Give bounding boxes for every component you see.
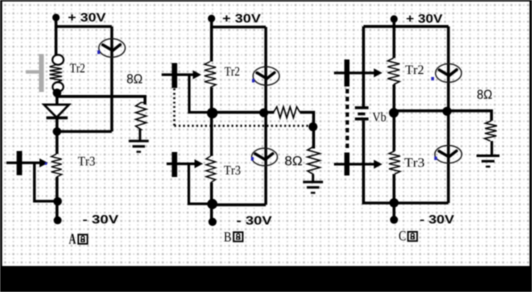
wire output node A to load resistor [56, 96, 145, 104]
label Tr2 (circuit B) [225, 67, 240, 76]
arrowhead into Tr2 (circuit C) [374, 68, 383, 77]
figure icon A [78, 235, 87, 244]
current source lower (circuit C) [435, 146, 462, 164]
wire middle vertical C upper [393, 28, 396, 58]
label + 30V (circuit B) [223, 14, 261, 23]
wire middle vertical C centre [393, 85, 396, 152]
wire middle output rail B [212, 111, 275, 114]
frame border right bar [530, 0, 532, 266]
blue tick artifact left of upper current source C [431, 77, 434, 80]
feedback wire loop (circuit A) [34, 163, 57, 201]
label Tr3 (circuit B) [224, 166, 240, 175]
diode D1 cathode bar [46, 116, 67, 119]
wire diode cathode to current source A [57, 130, 112, 133]
junction dot diode cathode node A [53, 127, 62, 136]
resistor 8 ohm load (circuit C) [485, 121, 497, 141]
wire Tr2 to diode junction A [56, 91, 59, 105]
feedback wire loop lower (circuit B) [189, 164, 212, 204]
wire right branch A vertical [110, 27, 113, 132]
label Tr3 (circuit C) [404, 158, 424, 167]
input terminal bar upper (circuit C) [344, 60, 349, 87]
wire left branch A upper [55, 27, 58, 56]
transistor Tr2 (circuit A) bottom terminal circle [53, 82, 64, 91]
frame border top line [0, 0, 532, 2]
transistor Tr3 (circuit C) squiggle [389, 151, 400, 174]
transistor Tr3 (circuit B) squiggle [206, 156, 215, 183]
wire middle vertical C lower [393, 174, 396, 220]
wire top rail B [212, 19, 266, 28]
junction dot feedback node A [53, 197, 62, 206]
arrowhead into Tr3 (circuit C) [374, 160, 383, 169]
junction dot dotted feedback node (circuit B) [309, 122, 318, 131]
battery Vb plate short middle (circuit C) [358, 113, 365, 116]
resistor 8 ohm load (circuit B) [308, 147, 320, 175]
label 8 ohm (circuit A) [127, 74, 142, 83]
blue tick artifact left of current source A [97, 50, 100, 54]
battery Vb plate wide top (circuit C) [355, 106, 369, 109]
blue tick artifact left of lower current source B [251, 157, 254, 161]
wire diode cathode down [56, 117, 59, 135]
label 8 ohm (circuit B) [285, 156, 302, 165]
current source upper (circuit C) [436, 64, 462, 82]
node -30V terminal dot (circuit A) [54, 216, 62, 224]
figure icon B [234, 232, 243, 241]
dotted feedback wire (circuit B) [174, 89, 308, 126]
wire top rail A [56, 18, 112, 27]
label Tr3 (circuit A) [78, 157, 95, 166]
current source U1 (circuit A) [99, 39, 125, 57]
label Vb (circuit C) [372, 112, 385, 121]
junction dot output node right (circuit C) [442, 107, 451, 116]
junction dot output node left (circuit C) [389, 108, 399, 118]
blue tick artifact left of upper current source B [252, 79, 255, 83]
current source upper (circuit B) [253, 67, 279, 85]
node +30V terminal dot (circuit C) [390, 15, 397, 22]
label - 30V (circuit C) [420, 215, 454, 224]
wire main vertical lower A [56, 133, 59, 219]
label - 30V (circuit A) [83, 215, 118, 224]
blue tick artifact at arrowhead (circuit A) [45, 162, 47, 164]
junction dot output node left (circuit B) [207, 108, 218, 119]
input signal wire with arrow into Tr3 (circuit C) [334, 163, 375, 166]
label - 30V (circuit B) [237, 216, 272, 225]
node +30V terminal dot (circuit B) [208, 15, 215, 22]
label A (figure letter) [69, 234, 76, 244]
junction dot bottom node (circuit C) [389, 198, 398, 207]
transistor Tr3 (circuit A) squiggle [51, 154, 61, 177]
gray ghost input terminal (circuit A) lead [26, 70, 39, 73]
node +30V terminal dot (circuit A) [52, 14, 59, 21]
ground symbol (circuit B) [303, 181, 323, 184]
current source lower (circuit B) [252, 148, 278, 165]
wire right branch C vertical [447, 26, 450, 203]
wire bottom rail B [212, 203, 266, 206]
wire left vertical B middle [210, 88, 213, 157]
input terminal bar upper (circuit B) [172, 63, 177, 88]
label + 30V (circuit C) [407, 14, 443, 23]
resistor horizontal coupling (circuit B) [274, 107, 301, 118]
node -30V terminal dot (circuit C) [390, 216, 398, 224]
wire input to output node (circuit B) [189, 75, 212, 113]
diode D1 (circuit A) [44, 105, 69, 118]
label 8 ohm (circuit C) [477, 90, 491, 99]
wire resistor to ground C [490, 141, 493, 155]
transistor Tr2 (circuit B) squiggle [204, 62, 216, 88]
node -30V terminal dot (circuit B) [208, 218, 216, 226]
junction dot bottom node (circuit B) [207, 199, 217, 209]
wire left branch B upper [210, 27, 213, 62]
battery Vb plate wide bottom (circuit C) [355, 118, 369, 121]
label C (figure letter) [399, 231, 406, 240]
blue tick artifact left of lower current source C [434, 157, 437, 160]
wire top rail C [364, 25, 449, 28]
input terminal bar (circuit A) [17, 151, 23, 175]
input terminal bar lower (circuit C) [344, 153, 349, 176]
wire right branch B vertical [264, 27, 267, 205]
wire resistor to ground B [312, 175, 314, 183]
label Tr2 (circuit A) [70, 64, 85, 73]
ground symbol (circuit C) [477, 155, 500, 158]
wire left vertical B lower [210, 183, 213, 222]
junction dot output node right (circuit B) [259, 108, 268, 117]
wire left branch C lower [364, 120, 449, 203]
wire left branch C upper [362, 26, 365, 106]
input signal wire with arrow into Tr2 (circuit C) [334, 72, 375, 75]
figure icon C [408, 232, 417, 241]
gray ghost input terminal (circuit A) bar [39, 54, 44, 92]
wire middle output rail C [394, 111, 492, 121]
wire +30V dot stub C [393, 19, 396, 28]
resistor 8 ohm load (circuit A) [136, 97, 147, 130]
transistor Tr2 (circuit A) top terminal circle [52, 55, 63, 65]
frame border left bar [0, 0, 2, 266]
wire resistor to ground A [139, 129, 141, 141]
input signal wire with arrow into Tr3 (circuit A) [6, 161, 41, 164]
input terminal bar lower (circuit B) [172, 152, 177, 177]
dashed wire between gate terminals (circuit C) [346, 89, 349, 151]
transistor Tr2 (circuit C) squiggle [388, 58, 400, 85]
label + 30V (circuit A) [68, 13, 105, 22]
arrowhead into Tr2 (circuit B) [193, 70, 202, 79]
transistor Tr2 (circuit A) squiggle body [50, 65, 62, 82]
frame bottom black strip [0, 266, 532, 292]
input signal wire with arrow into Tr2 (circuit B) [162, 73, 194, 76]
label B (figure letter) [224, 232, 231, 241]
input signal wire with arrow into Tr3 (circuit B) [167, 163, 196, 166]
label Tr2 (circuit C) [405, 65, 423, 74]
ground symbol (circuit A) [129, 140, 149, 143]
wire resistor to output corner B [300, 112, 314, 148]
arrowhead into Tr3 (circuit B) [195, 159, 204, 168]
arrowhead into Tr3 (circuit A) [40, 158, 49, 167]
junction dot diode anode node A [53, 89, 62, 98]
